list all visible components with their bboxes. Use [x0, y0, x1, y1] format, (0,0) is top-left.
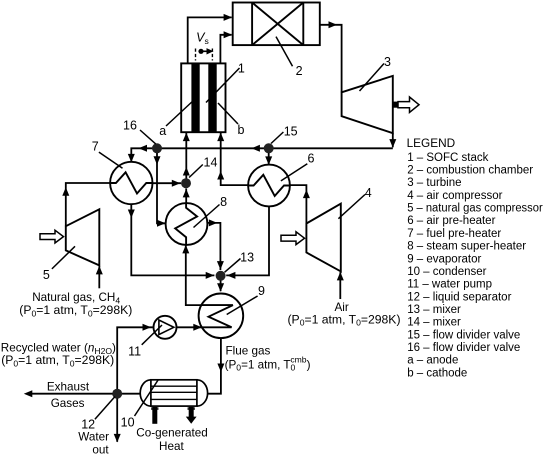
label 15 pointer	[271, 132, 283, 144]
stack voltage Vs probe	[196, 48, 214, 60]
svg-text:15: 15	[284, 125, 298, 139]
node 14 mixer	[181, 178, 191, 188]
wire HX8 right to node 13	[207, 219, 224, 270]
svg-text:Flue gas: Flue gas	[226, 345, 271, 358]
label co-generated heat	[136, 427, 207, 453]
evaporator 9	[199, 294, 244, 339]
svg-text:16 – flow divider valve: 16 – flow divider valve	[407, 342, 520, 354]
svg-text:16: 16	[123, 119, 137, 133]
svg-text:10 – condenser: 10 – condenser	[407, 266, 486, 278]
svg-text:7 – fuel pre-heater: 7 – fuel pre-heater	[407, 228, 501, 240]
wire turbine exhaust down to main flue line	[389, 133, 396, 147]
wire HX6 bottom to node 13	[226, 206, 269, 279]
svg-text:LEGEND: LEGEND	[407, 136, 456, 150]
svg-text:6: 6	[308, 151, 315, 165]
svg-text:5: 5	[43, 268, 50, 282]
label 5 pointer	[52, 246, 75, 269]
svg-text:4 – air compressor: 4 – air compressor	[407, 190, 502, 202]
compressor 5 natural gas compressor	[66, 209, 100, 265]
wire anode outlet stack top to combustion chamber	[188, 14, 232, 64]
label 12 pointer	[95, 397, 115, 420]
svg-text:4: 4	[365, 186, 372, 200]
compressor 5 work input arrow	[40, 230, 64, 243]
water pump 11	[154, 316, 177, 339]
wire node 15 down to HX6 top	[265, 153, 272, 165]
heat exchanger 6 air pre-heater	[248, 165, 290, 207]
wire cathode outlet stack top to combustion chamber	[220, 31, 232, 63]
svg-text:a – anode: a – anode	[407, 355, 458, 367]
label 4 pointer	[338, 195, 365, 219]
wire combustion chamber to turbine inlet	[320, 21, 342, 92]
wire HX6 left up to stack cathode inlet	[217, 132, 248, 185]
label 13 pointer	[225, 259, 241, 273]
wire steam riser evaporator to HX8 bottom	[182, 245, 202, 305]
label 6 pointer	[281, 164, 307, 181]
wire compressor 5 outlet up to HX7 left	[62, 183, 110, 226]
svg-text:Vs: Vs	[196, 31, 209, 46]
label 15	[284, 125, 298, 139]
label a anode	[159, 124, 166, 138]
wire air inlet	[337, 272, 344, 299]
wire node 16 down and right into HX8 left	[154, 153, 166, 227]
label 14	[204, 156, 218, 170]
co-generated heat output arrow	[186, 407, 197, 424]
label 13	[240, 251, 254, 265]
label 7	[92, 140, 99, 154]
wire condenser to node 12	[122, 393, 140, 395]
label 14 pointer	[189, 165, 203, 178]
label 2 pointer	[276, 37, 293, 67]
svg-text:2 – combustion chamber: 2 – combustion chamber	[407, 165, 533, 177]
compressor 4 work input arrow	[281, 232, 305, 245]
svg-text:Co-generated: Co-generated	[136, 427, 207, 440]
label b cathode pointer	[218, 103, 238, 124]
condenser support leg	[151, 407, 158, 424]
compressor 4 air compressor	[306, 204, 340, 272]
label 9 pointer	[227, 296, 258, 315]
combustion chamber 2	[233, 3, 320, 46]
SOFC stack 1	[181, 63, 225, 132]
label 1	[238, 61, 245, 75]
wire evaporator bottom to condenser	[208, 338, 225, 394]
svg-text:(P0=1 atm, T0=298K): (P0=1 atm, T0=298K)	[288, 312, 401, 327]
condenser 10	[140, 380, 207, 406]
svg-text:13: 13	[240, 251, 254, 265]
label b cathode	[238, 123, 245, 137]
label 11	[128, 345, 141, 359]
label 5	[43, 268, 50, 282]
node 16 flow divider valve	[152, 143, 162, 153]
svg-text:6 – air pre-heater: 6 – air pre-heater	[407, 215, 495, 227]
label 1 pointer	[206, 68, 240, 103]
node 12 liquid separator	[112, 389, 122, 399]
label 3 pointer	[360, 64, 385, 92]
label flue gas	[225, 345, 311, 373]
wire compressor 4 outlet up to HX6 right	[290, 185, 310, 223]
wire node 13 down to evaporator top	[217, 281, 224, 292]
svg-text:10: 10	[121, 415, 135, 429]
legend	[407, 136, 543, 379]
wire anode riser node 14 up to stack	[183, 132, 190, 179]
label 16 pointer	[140, 130, 156, 144]
svg-text:2: 2	[296, 64, 303, 78]
label Vs	[196, 31, 209, 46]
svg-text:Water: Water	[78, 431, 109, 444]
svg-text:12: 12	[81, 417, 95, 431]
label 10	[121, 415, 135, 429]
wire HX8 top to node 14	[183, 189, 190, 204]
label air	[288, 301, 401, 328]
svg-text:7: 7	[92, 140, 99, 154]
svg-text:1 – SOFC stack: 1 – SOFC stack	[407, 152, 488, 164]
label 7 pointer	[99, 152, 123, 168]
label 9	[258, 284, 265, 298]
label 10 pointer	[135, 380, 159, 417]
label 6	[308, 151, 315, 165]
label exhaust gases	[47, 380, 90, 410]
svg-text:(P0=1 atm, T0=298K): (P0=1 atm, T0=298K)	[1, 353, 114, 368]
svg-text:12 – liquid separator: 12 – liquid separator	[407, 291, 511, 303]
svg-text:Heat: Heat	[159, 440, 184, 453]
heat exchanger 7 fuel pre-heater	[110, 162, 152, 204]
svg-text:8: 8	[220, 195, 227, 209]
svg-text:b – cathode: b – cathode	[407, 367, 467, 379]
svg-text:9: 9	[258, 284, 265, 298]
svg-text:out: out	[92, 444, 109, 455]
label 12 water out	[78, 417, 109, 455]
turbine 3	[342, 76, 393, 133]
wire recycled water node 12 up to pump 11	[117, 324, 153, 389]
label 11 pointer	[142, 325, 162, 345]
svg-text:9 – evaporator: 9 – evaporator	[407, 253, 481, 265]
wire HX7 bottom to node 13	[128, 204, 215, 279]
node 15 flow divider valve	[264, 143, 274, 153]
wire main flue header line with corner down into HX7	[128, 145, 393, 163]
svg-text:(P0=1 atm, T0=298K): (P0=1 atm, T0=298K)	[19, 303, 132, 318]
heat exchanger 8 steam super-heater	[166, 203, 208, 245]
label 3	[384, 55, 391, 69]
label 8 pointer	[194, 205, 220, 228]
svg-text:3: 3	[384, 55, 391, 69]
svg-text:8 – steam super-heater: 8 – steam super-heater	[407, 241, 526, 253]
label natural gas	[19, 291, 132, 319]
wire HX7 right to node 14	[153, 180, 182, 187]
svg-text:14: 14	[204, 156, 218, 170]
svg-text:1: 1	[238, 61, 245, 75]
svg-text:Gases: Gases	[51, 397, 85, 410]
label 4	[365, 186, 372, 200]
svg-text:5 – natural gas compressor: 5 – natural gas compressor	[407, 203, 543, 215]
label recycled water	[1, 342, 116, 369]
svg-text:b: b	[238, 123, 245, 137]
svg-text:14 – mixer: 14 – mixer	[407, 317, 461, 329]
svg-text:11: 11	[128, 345, 141, 359]
wire natural gas inlet	[96, 266, 103, 288]
label 8	[220, 195, 227, 209]
node 13 mixer	[216, 271, 226, 281]
svg-text:11 – water pump: 11 – water pump	[407, 279, 492, 291]
wire exhaust gases outlet	[24, 390, 113, 397]
svg-text:Exhaust: Exhaust	[47, 380, 90, 393]
label 16	[123, 119, 137, 133]
svg-text:15 – flow divider valve: 15 – flow divider valve	[407, 329, 520, 341]
label a anode pointer	[166, 100, 195, 127]
svg-text:a: a	[159, 124, 166, 138]
turbine power output arrow	[393, 97, 419, 112]
svg-text:3 – turbine: 3 – turbine	[407, 177, 461, 189]
wire water out down	[114, 399, 121, 443]
wire pump 11 to evaporator	[177, 324, 203, 331]
svg-text:13 – mixer: 13 – mixer	[407, 304, 461, 316]
label 2	[296, 64, 303, 78]
